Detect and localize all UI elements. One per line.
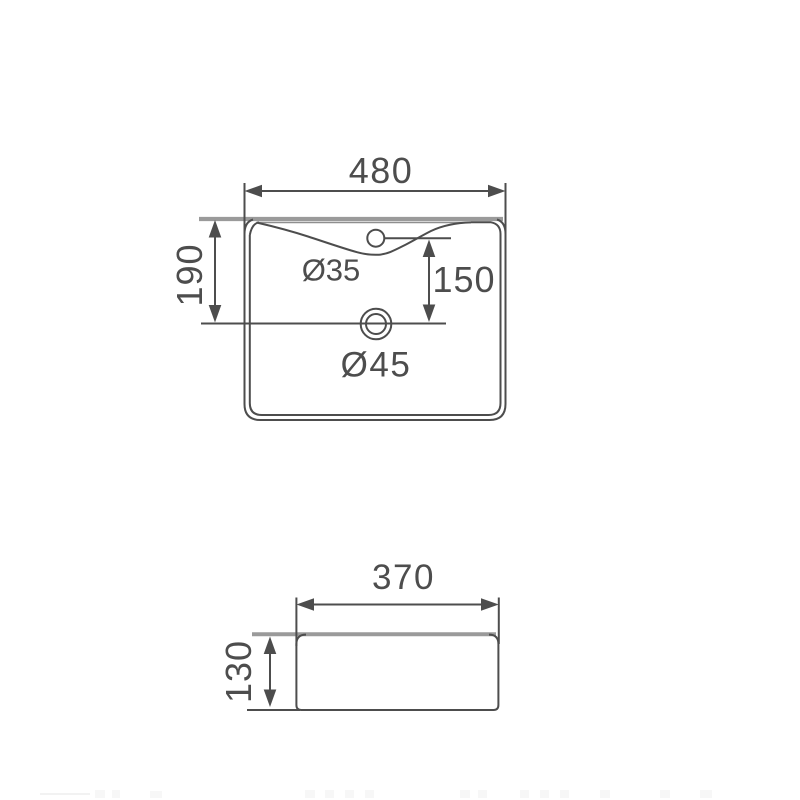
basin front inner wave [257, 222, 472, 254]
dim 150 top tick [384, 237, 451, 239]
dim 190 line [214, 237, 216, 305]
dim 150 line [428, 256, 430, 306]
drain hole Ø45 inner [366, 314, 386, 334]
arrow 150 up [423, 240, 436, 258]
svg-text:190: 190 [169, 243, 210, 306]
svg-text:480: 480 [349, 150, 414, 191]
svg-text:150: 150 [432, 259, 495, 300]
dim 130 line [269, 653, 271, 690]
arrow 480 left [245, 185, 263, 197]
faucet hole Ø35 [367, 230, 384, 247]
basin outer rim (top view) [245, 220, 506, 421]
arrow 130 up [264, 637, 277, 655]
arrow 190 up [209, 220, 222, 238]
svg-text:Ø45: Ø45 [341, 346, 412, 385]
arrow 370 left [296, 598, 314, 611]
inner top edge under band [258, 222, 471, 224]
dim 480 extension line right [505, 183, 507, 242]
arrow 190 down [209, 305, 222, 323]
dim 480 line [262, 190, 488, 192]
arrow 370 right [481, 598, 499, 611]
arrow 480 right [488, 185, 506, 197]
dim 480 extension line left [244, 183, 246, 242]
arrow 150 down [423, 305, 436, 323]
dim 370 extension left [295, 598, 297, 647]
side view body [296, 635, 498, 710]
dim 370 line [314, 604, 481, 606]
dim 370 extension right [498, 598, 500, 645]
dim 190 / drain centre line [201, 323, 446, 325]
side view top edge (grey band) [252, 632, 496, 636]
basin top edge (grey band) [199, 217, 503, 221]
faint footer marks [40, 793, 90, 795]
svg-text:Ø35: Ø35 [302, 253, 361, 288]
svg-text:370: 370 [372, 558, 435, 597]
dim 130 bottom tick [247, 709, 300, 711]
svg-text:130: 130 [218, 640, 259, 703]
arrow 130 down [264, 690, 277, 708]
drain hole Ø45 outer [361, 309, 392, 340]
basin inner rim (top view) [250, 222, 501, 415]
